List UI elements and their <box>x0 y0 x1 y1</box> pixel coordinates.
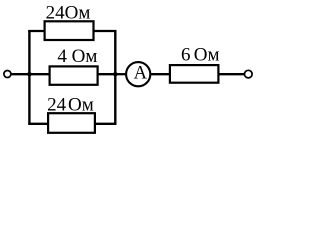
ammeter A1 body <box>126 62 150 86</box>
wire node B to ammeter A1 <box>115 73 127 75</box>
wire left bus <box>28 31 30 124</box>
wire R1 to node B <box>94 30 117 32</box>
wire node A to R1 <box>28 30 45 32</box>
resistor R3 body <box>48 113 95 133</box>
svg-text:4 Ом: 4 Ом <box>57 46 97 67</box>
wire right bus <box>114 31 116 124</box>
svg-text:6 Ом: 6 Ом <box>181 45 220 66</box>
wire node A to R3 <box>28 123 49 125</box>
resistor R4 body <box>170 65 219 83</box>
terminal T1 (left) <box>4 71 11 78</box>
node A junction dot <box>27 72 31 76</box>
terminal T2 (right) <box>245 70 253 78</box>
wire R3 to node B <box>95 123 117 125</box>
wire T1 to node A <box>11 73 30 75</box>
svg-text:24Ом: 24Ом <box>46 2 91 23</box>
wire node A to R2 <box>29 73 50 75</box>
wire ammeter A1 to R4 <box>150 73 171 75</box>
wire R4 to terminal T2 <box>218 73 245 75</box>
node B junction dot <box>113 72 117 76</box>
wire R2 to node B <box>98 73 117 75</box>
resistor R1 body <box>45 21 94 40</box>
svg-text:24 Ом: 24 Ом <box>47 94 94 115</box>
svg-text:A: A <box>134 63 148 83</box>
resistor R2 body <box>50 66 98 84</box>
